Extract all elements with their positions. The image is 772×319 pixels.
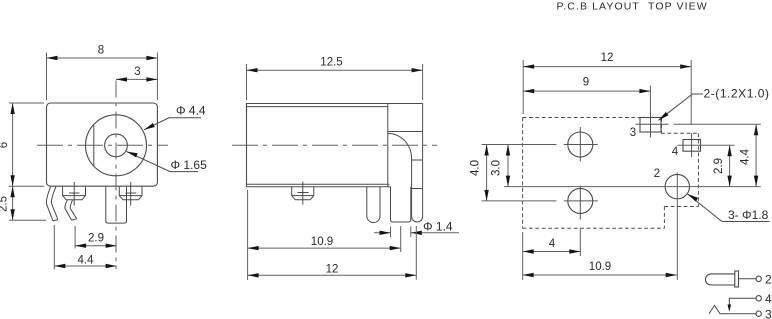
leader phi1.65 (127, 152, 199, 172)
svg-text:TOP VIEW: TOP VIEW (648, 1, 708, 13)
dim 10.9 extension lines (247, 190, 249, 280)
dim 2.9 extension lines (53, 225, 55, 270)
wire pin 2 outline (65, 200, 72, 220)
dashed outline notch (664, 206, 698, 208)
collar pin 1 front (63, 187, 86, 200)
svg-text:9: 9 (583, 76, 589, 88)
collar pin 2 front (119, 187, 142, 200)
hole 2 circle (665, 174, 689, 198)
side horizontal centerline (232, 144, 437, 146)
vertical centerline front (115, 81, 117, 270)
svg-text:4: 4 (672, 146, 679, 158)
dim 12.5 extension lines (246, 64, 248, 100)
dim 4 bottom extension line (522, 232, 524, 280)
dim 12 top extension lines (522, 60, 524, 114)
barrel large circle (86, 115, 147, 176)
hole B crosshair (564, 200, 598, 202)
hole 2 vertical centerline long (676, 173, 678, 281)
dim phi1.4 arrows (374, 232, 391, 234)
dashed outline step right of pad 3 (661, 118, 663, 133)
svg-text:2: 2 (654, 168, 660, 180)
dim 9 line (523, 90, 650, 92)
svg-text:4.4: 4.4 (78, 254, 95, 266)
dim 12 top line (523, 66, 691, 68)
wire pin 3 with spring contact (709, 306, 756, 314)
svg-text:8: 8 (98, 45, 104, 57)
svg-text:12.5: 12.5 (320, 57, 342, 69)
side flat pin phi1.4 (391, 187, 411, 222)
svg-text:P.C.B LAYOUT: P.C.B LAYOUT (557, 1, 640, 13)
dim 8 line (47, 57, 158, 59)
pad 4 crosshair (678, 144, 735, 146)
dim 4 bottom line (523, 251, 581, 253)
dashed outline left edge (522, 118, 524, 229)
side body bottom double lines (247, 183, 390, 185)
pad 4 square (683, 140, 701, 152)
dim 3 line (116, 78, 157, 80)
svg-text:3.0: 3.0 (491, 160, 503, 176)
svg-text:Φ 1.65: Φ 1.65 (171, 158, 208, 172)
dim 3.0 line (507, 145, 509, 187)
side U pin (367, 187, 380, 223)
hole 2 horizontal centerline long (504, 186, 761, 188)
svg-text:Φ 4.4: Φ 4.4 (176, 103, 206, 117)
side bottom tab collar (292, 187, 314, 200)
terminal circle 2 (756, 276, 761, 281)
svg-text:3: 3 (134, 66, 140, 78)
svg-text:10.9: 10.9 (589, 261, 611, 273)
wire 4 arrowhead (728, 305, 732, 312)
dim 12 extension line (415, 226, 417, 280)
svg-text:3: 3 (765, 308, 772, 319)
side right column outer edge with dome pin (412, 104, 423, 223)
dim 6 extension lines (9, 102, 44, 104)
hole B centerline left extension (482, 200, 557, 202)
horizontal centerline front (37, 144, 168, 146)
dim 12 line (248, 274, 417, 276)
dim 2.5 line (12, 186, 14, 220)
svg-text:6: 6 (0, 142, 10, 148)
chord line inside barrel (93, 124, 95, 166)
pad 3 centerline extension to dim 4.4 (674, 123, 761, 125)
hole A crosshair (564, 144, 598, 146)
dim 10.9 bottom line (523, 274, 677, 276)
side body inner top line (247, 106, 388, 108)
center pin small circle (105, 134, 128, 157)
pad 3 square (640, 118, 661, 133)
dim 2.9 right line (729, 145, 731, 186)
dashed outline bottom edge (523, 227, 665, 229)
body outline front view (47, 103, 158, 186)
dim 12.5 line (247, 69, 423, 71)
dim 4.4 line (54, 265, 116, 267)
wire pin left outline (46, 187, 53, 221)
hole B lower extension (579, 228, 581, 256)
leader 3-phi1.8 (688, 194, 770, 222)
dim 9 extension line (649, 86, 651, 115)
svg-text:Φ 1.4: Φ 1.4 (423, 220, 453, 234)
leader 2-(1.2X1.0) (659, 94, 704, 120)
dim 6 line (12, 103, 14, 186)
hole A circle (568, 132, 593, 157)
dim 4.0 line (486, 145, 488, 201)
svg-text:2.9: 2.9 (713, 158, 725, 174)
side tab crosshair (302, 182, 304, 205)
dim phi1.4 witness lines (390, 227, 392, 238)
dashed outline right edge (697, 133, 699, 206)
svg-text:12: 12 (601, 52, 614, 64)
svg-text:4.4: 4.4 (740, 148, 752, 165)
wire pin 2 (739, 278, 757, 280)
plug bullet (705, 274, 734, 285)
hole B circle (568, 188, 593, 213)
svg-text:4.0: 4.0 (470, 160, 482, 176)
side bent pin arc (389, 134, 412, 159)
pad 3 crosshair (636, 123, 669, 125)
svg-text:2: 2 (765, 273, 772, 287)
svg-text:2.9: 2.9 (88, 233, 104, 245)
svg-text:3- Φ1.8: 3- Φ1.8 (728, 208, 769, 222)
dim 4.4 right line (755, 124, 757, 186)
terminal circle 3 (756, 311, 761, 316)
hole A centerline left extension (482, 144, 557, 146)
svg-text:3: 3 (630, 127, 636, 139)
dim 2.9 line (75, 245, 117, 247)
svg-text:4: 4 (549, 238, 556, 250)
dim 8 extension lines (46, 53, 48, 101)
dashed outline top edge (523, 117, 640, 119)
svg-text:2.5: 2.5 (0, 196, 10, 212)
svg-text:4: 4 (765, 292, 772, 306)
leader phi4.4 (144, 118, 201, 130)
side right column divider 3 (412, 188, 423, 190)
dim 2.5 extension line (9, 219, 46, 221)
side right column divider 2 (412, 159, 423, 161)
side body outline (247, 104, 423, 187)
collar pin 1 crosshair (73, 182, 75, 206)
wire pin 4 (729, 298, 756, 305)
plug washer bar (735, 271, 739, 287)
side right column divider 1 (388, 131, 423, 133)
flat middle pin front (106, 187, 127, 223)
collar pin 2 crosshair (130, 182, 132, 206)
terminal circle 4 (756, 296, 761, 301)
svg-text:12: 12 (326, 263, 339, 275)
svg-text:10.9: 10.9 (311, 236, 333, 248)
side body right inner vertical (387, 104, 389, 187)
svg-text:2-(1.2X1.0): 2-(1.2X1.0) (704, 87, 770, 101)
dim 10.9 line (248, 247, 401, 249)
